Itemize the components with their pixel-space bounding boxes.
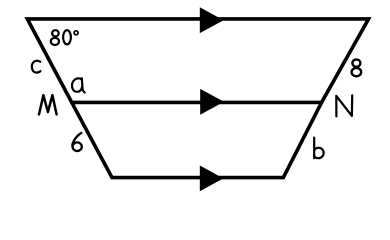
- label 80 degrees: [51, 30, 78, 45]
- arrowhead on middle line: [200, 89, 224, 115]
- vertex label N: [336, 95, 352, 116]
- label b: [314, 138, 323, 159]
- middle parallel line MN: [72, 101, 322, 105]
- triangle outline (top line, left side, right side, bottom line): [27, 19, 368, 178]
- label 8 (right side): [352, 59, 362, 76]
- vertex label M: [39, 95, 57, 114]
- label c: [32, 61, 41, 73]
- arrowhead on top line: [200, 7, 224, 33]
- label a: [72, 78, 85, 92]
- label 6: [72, 133, 81, 151]
- arrowhead on bottom line: [200, 166, 224, 192]
